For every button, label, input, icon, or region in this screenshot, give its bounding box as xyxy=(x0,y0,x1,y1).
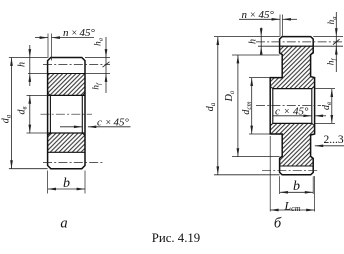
svg-text:dст: dст xyxy=(241,101,253,114)
label h right gear xyxy=(248,39,259,44)
svg-text:×: × xyxy=(250,10,256,21)
label d_a xyxy=(1,114,13,123)
chamfer extension ticks n×45 xyxy=(48,34,52,61)
dimension h right gear xyxy=(260,28,262,37)
tick at pitch line xyxy=(103,62,110,67)
dimension h_a xyxy=(105,37,107,58)
svg-text:hf: hf xyxy=(327,58,338,66)
tick at pitch right xyxy=(333,39,340,44)
svg-text:Do: Do xyxy=(224,90,236,102)
hatch upper section xyxy=(270,46,314,88)
svg-text:×: × xyxy=(106,117,112,128)
label d_st xyxy=(241,101,253,114)
gear body outline xyxy=(270,37,314,175)
svg-text:hf: hf xyxy=(92,82,103,90)
label h_a right xyxy=(327,17,338,25)
root line bottom xyxy=(48,151,85,153)
pitch line bottom (dash-dot) xyxy=(43,162,103,164)
svg-text:б: б xyxy=(274,215,282,231)
label h_a xyxy=(94,38,105,46)
extension D_o lines xyxy=(232,55,280,157)
dimension d_v right gear xyxy=(331,89,333,124)
axis centerline (dash-dot) xyxy=(41,113,93,115)
dimension L_st xyxy=(270,209,314,211)
extension tip top left xyxy=(214,36,280,38)
svg-text:Lст: Lст xyxy=(283,198,300,213)
svg-text:dв: dв xyxy=(321,102,333,110)
dimension d_a right gear xyxy=(217,37,219,175)
extension tip line right xyxy=(85,57,110,59)
label d_v right xyxy=(321,102,333,110)
bore top edge xyxy=(27,94,48,96)
dimension h_a right xyxy=(335,12,337,37)
bore bottom edge xyxy=(273,122,312,124)
extension d_st lines xyxy=(249,78,270,134)
svg-text:da: da xyxy=(205,102,217,111)
svg-text:dв: dв xyxy=(17,106,29,114)
dimension d_v (bore) xyxy=(29,95,31,133)
svg-text:h: h xyxy=(248,39,259,44)
hatch rim bottom xyxy=(48,133,85,152)
label b xyxy=(63,176,70,191)
label h xyxy=(17,62,28,67)
caption Рис. 4.19 xyxy=(152,231,200,245)
label d_a xyxy=(205,102,217,111)
extension line tip bottom-left xyxy=(9,168,48,170)
extension lines b xyxy=(48,171,85,194)
dimension h (tooth depth) xyxy=(29,45,31,58)
bore chamfer line left xyxy=(49,95,51,133)
extension tip bottom left xyxy=(214,174,280,176)
axis centerline (dash-dot) xyxy=(256,104,321,106)
pitch line bottom (dash-dot) xyxy=(262,169,318,171)
chamfer ticks n×45 right gear xyxy=(280,15,283,38)
extension lines L_st xyxy=(270,136,314,212)
leader 2...3 (web recess) xyxy=(315,145,344,147)
extension tip line right side xyxy=(313,36,343,38)
svg-text:b: b xyxy=(63,176,70,191)
svg-text:h: h xyxy=(17,62,28,67)
svg-text:×: × xyxy=(72,28,78,39)
bore chamfer line right xyxy=(81,95,83,133)
label D_o xyxy=(224,90,236,102)
label a (view label) xyxy=(60,215,67,231)
label h_f xyxy=(92,82,103,90)
svg-text:ha: ha xyxy=(94,38,105,46)
label n×45 xyxy=(63,27,96,39)
svg-text:Рис. 4.19: Рис. 4.19 xyxy=(152,231,200,245)
label 2...3 xyxy=(324,134,344,146)
svg-text:c: c xyxy=(97,116,102,128)
dimension D_o xyxy=(237,55,239,157)
bore chamfer diagonals xyxy=(270,86,314,126)
label c×45 right xyxy=(275,105,309,117)
svg-text:n: n xyxy=(63,27,69,39)
bore bottom edge xyxy=(27,132,48,134)
extension line tip top-left xyxy=(9,57,48,59)
bore chamfer lines xyxy=(273,89,312,124)
dimension c×45 arrows xyxy=(60,126,82,128)
root line top xyxy=(28,73,110,75)
svg-text:n: n xyxy=(242,9,248,21)
svg-text:c: c xyxy=(275,105,280,117)
label n×45 right xyxy=(242,9,275,21)
extension lines b right gear xyxy=(280,176,314,194)
hatch lower section xyxy=(270,123,314,166)
svg-text:45°: 45° xyxy=(293,105,309,117)
label b right xyxy=(293,179,300,194)
svg-text:×: × xyxy=(284,106,290,117)
svg-text:45°: 45° xyxy=(114,116,130,128)
dimension line n×45 xyxy=(35,37,48,39)
svg-text:2...3: 2...3 xyxy=(324,134,344,146)
dimension b xyxy=(48,188,85,190)
dimension line n×45 right xyxy=(239,18,280,20)
svg-text:а: а xyxy=(60,215,67,231)
svg-text:45°: 45° xyxy=(80,27,96,39)
dimension c×45 right gear xyxy=(273,115,312,117)
svg-text:b: b xyxy=(293,179,300,194)
dimension b right gear xyxy=(280,191,314,193)
label c×45 xyxy=(97,116,130,128)
label L_st xyxy=(283,198,300,213)
svg-text:ha: ha xyxy=(327,17,338,25)
pitch line top (dash-dot) xyxy=(256,41,343,43)
dimension d_st xyxy=(251,78,253,134)
gear body outline xyxy=(48,58,85,169)
label d_v xyxy=(17,106,29,114)
svg-text:45°: 45° xyxy=(259,9,275,21)
root line top xyxy=(258,45,343,47)
label b (view label) xyxy=(274,215,282,231)
bore chamfer diagonals xyxy=(48,93,85,136)
pitch line top (dash-dot) xyxy=(43,64,110,66)
dimension d_a xyxy=(11,58,13,169)
bore top edge xyxy=(273,88,312,90)
label h_f right xyxy=(327,58,338,66)
root line bottom xyxy=(280,165,314,167)
hatch rim top xyxy=(48,74,85,96)
svg-text:da: da xyxy=(1,114,13,123)
